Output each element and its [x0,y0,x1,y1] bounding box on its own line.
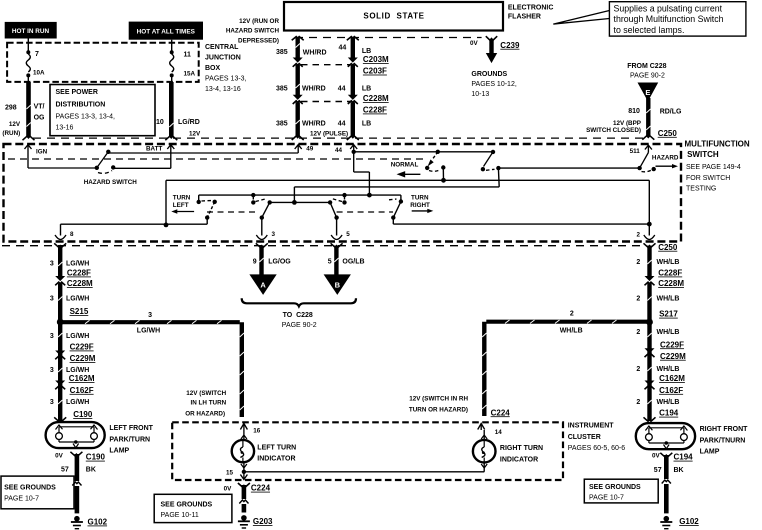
wire 9 LG/OG to triangle A [253,243,292,275]
svg-text:C203M: C203M [363,55,389,64]
splice S217 [646,319,653,421]
central junction box (dashed) [7,43,199,82]
svg-text:C190: C190 [86,453,106,462]
svg-text:C228F: C228F [363,106,387,115]
svg-text:BK: BK [674,467,684,474]
svg-text:0V: 0V [55,453,64,460]
svg-text:13-4, 13-16: 13-4, 13-16 [205,86,241,93]
svg-text:LEFT: LEFT [173,202,189,209]
svg-text:2: 2 [636,329,640,336]
left turn indicator bulb [232,440,296,463]
svg-text:44: 44 [339,45,347,52]
connector labels C203M C203F C228M C228F [363,55,389,115]
instrument cluster box (dashed) [172,422,563,480]
svg-text:FLASHER: FLASHER [508,14,541,21]
svg-text:TURN OR HAZARD): TURN OR HAZARD) [409,407,468,414]
wire foot into left lamp [54,417,66,421]
connector C203 joint left [293,64,303,100]
svg-text:LAMP: LAMP [109,448,129,455]
svg-text:to selected lamps.: to selected lamps. [614,25,685,35]
svg-text:13-16: 13-16 [56,125,74,132]
svg-text:0V: 0V [470,40,479,47]
wire 3 LG/WH left column top [50,243,89,281]
svg-text:C228M: C228M [363,94,389,103]
svg-text:C190: C190 [73,410,93,419]
svg-text:E: E [645,88,650,97]
pin 3 [256,218,275,240]
left column wire under S215 [50,333,94,352]
svg-text:C228F: C228F [67,269,91,278]
svg-text:HAZARD SWITCH: HAZARD SWITCH [84,179,138,186]
multifunction switch box (heavy dashed) [4,144,682,242]
svg-text:BATT: BATT [146,146,162,153]
normal pole right [481,150,501,187]
connector C228F/C228M joint right column [636,269,684,323]
svg-text:10: 10 [156,119,164,126]
lamp ground wire 57 BK left [55,452,105,514]
svg-text:S215: S215 [70,307,89,316]
pin 8 bus line D [55,224,207,239]
svg-text:SEE GROUNDS: SEE GROUNDS [589,484,641,491]
svg-text:RIGHT: RIGHT [410,202,430,209]
svg-text:7: 7 [35,51,39,58]
svg-text:PAGE 90-2: PAGE 90-2 [282,322,317,329]
svg-text:Supplies a pulsating current: Supplies a pulsating current [614,4,723,14]
svg-text:A: A [260,281,266,290]
switch bus H2 [354,151,493,153]
svg-text:3: 3 [50,261,54,268]
svg-text:5: 5 [346,231,350,238]
svg-text:PARK/TNURN: PARK/TNURN [700,437,746,444]
svg-text:LEFT FRONT: LEFT FRONT [109,425,153,432]
labels 385 WH/RD 44 LB rows [226,18,371,137]
switch bus line F [270,201,330,203]
svg-text:IN LH TURN: IN LH TURN [191,399,227,406]
svg-text:WH/LB: WH/LB [560,327,583,334]
switch bus line E [199,193,401,202]
pin BATT [113,145,174,169]
svg-text:C203F: C203F [363,67,387,76]
right turn indicator bulb [473,440,543,472]
left turn indicator pin 15 and cross wire [226,462,484,480]
switch bus line A [164,180,650,227]
svg-text:C229M: C229M [660,352,686,361]
dashed connector line above switch box [33,137,643,139]
svg-text:385: 385 [276,121,288,128]
svg-text:2: 2 [636,259,640,266]
svg-text:C224: C224 [491,408,511,417]
svg-text:WH/LB: WH/LB [657,329,680,336]
label 10 LG/RD 12V [156,119,201,138]
right turn indicator pin 14 [478,424,503,441]
svg-text:C194: C194 [659,409,679,418]
right column wire under S217 [636,329,684,349]
svg-text:C162M: C162M [659,374,685,383]
power tag HOT IN RUN [5,22,57,39]
svg-text:WH/RD: WH/RD [302,121,326,128]
svg-text:BOX: BOX [205,65,221,72]
svg-text:0V: 0V [224,485,233,492]
right front park/turn lamp [636,423,695,449]
wire from normal-right contact to hazard pole 2 [498,167,639,169]
svg-text:C162M: C162M [69,374,95,383]
svg-text:14: 14 [495,429,503,436]
svg-text:TO C228: TO C228 [283,312,313,319]
svg-text:C250: C250 [658,243,678,252]
label ELECTRONIC FLASHER [508,4,554,20]
turn switch pole SL3 [328,193,347,220]
svg-text:3: 3 [148,312,152,319]
label MULTIFUNCTION SWITCH [685,140,750,193]
svg-text:12V (PULSE): 12V (PULSE) [310,130,348,137]
callout note box with pointer [553,2,746,36]
svg-text:3: 3 [50,333,54,340]
svg-text:C239: C239 [500,41,520,50]
svg-text:through Multifunction Switch: through Multifunction Switch [614,14,724,24]
svg-text:385: 385 [276,86,288,93]
lamp ground wire 57 BK right [652,452,693,513]
svg-text:S217: S217 [659,310,678,319]
svg-text:C229F: C229F [660,340,684,349]
svg-text:PAGES 13-3,: PAGES 13-3, [205,75,247,82]
dashed page boundary under switch box [2,245,643,247]
svg-text:BK: BK [86,467,96,474]
svg-text:WH/LB: WH/LB [657,296,680,303]
svg-text:SOLID STATE: SOLID STATE [363,12,424,21]
svg-text:10A: 10A [33,70,45,77]
hazard switch pole 1 [84,150,138,187]
electronic flasher SOLID STATE box [284,2,503,31]
svg-text:PARK/TURN: PARK/TURN [109,436,150,443]
svg-text:57: 57 [61,467,69,474]
svg-text:ELECTRONIC: ELECTRONIC [508,4,554,11]
svg-text:11: 11 [184,51,192,58]
svg-text:LG/WH: LG/WH [66,367,89,374]
svg-text:C162F: C162F [659,386,683,395]
svg-text:57: 57 [654,467,662,474]
svg-text:PAGE 10-7: PAGE 10-7 [589,495,624,502]
wire 810 RD/LG [586,98,682,140]
svg-text:FROM C228: FROM C228 [627,63,666,70]
svg-text:WH/RD: WH/RD [302,86,326,93]
svg-text:C228M: C228M [67,279,93,288]
svg-text:B: B [335,281,341,290]
ground G203 [238,515,273,528]
svg-text:5: 5 [328,258,332,265]
dashed linkage line from hazard [8,158,428,160]
svg-text:JUNCTION: JUNCTION [205,54,241,61]
svg-text:810: 810 [628,108,640,115]
svg-text:RD/LG: RD/LG [660,108,682,115]
svg-text:44: 44 [338,121,346,128]
svg-text:VT/: VT/ [34,104,45,111]
svg-text:PAGES 13-3, 13-4,: PAGES 13-3, 13-4, [56,113,115,120]
svg-text:NORMAL: NORMAL [391,162,419,169]
svg-text:511: 511 [630,148,641,155]
svg-text:HOT AT ALL TIMES: HOT AT ALL TIMES [137,28,196,35]
ground G102 left [71,516,108,529]
turn switch pole SL1 [197,200,217,225]
svg-text:3: 3 [50,399,54,406]
svg-text:C194: C194 [674,453,694,462]
svg-text:HOT IN RUN: HOT IN RUN [12,28,50,35]
svg-text:44: 44 [335,147,343,154]
svg-text:SEE POWER: SEE POWER [56,89,98,96]
svg-text:SWITCH: SWITCH [687,150,719,159]
label TURN LEFT with arrow [171,195,194,214]
connector C203 joint right [348,64,358,100]
wire 385 WH/RD flasher left leg [292,37,304,63]
svg-text:IGN: IGN [36,149,48,156]
svg-text:C250: C250 [658,129,678,138]
wire 10 LG/RD (hot at all times feed) [165,82,177,140]
svg-text:9: 9 [253,258,257,265]
svg-text:12V: 12V [9,121,21,128]
pin IGN [25,145,97,168]
label INSTRUMENT CLUSTER [568,423,626,452]
wire 5 OG/LB to triangle B [328,243,365,275]
turn switch pole SR1 [389,199,403,224]
svg-text:G102: G102 [88,518,108,527]
note box SEE GROUNDS PAGE 10-7 right [584,479,658,503]
svg-text:LEFT TURN: LEFT TURN [257,445,296,452]
svg-text:44: 44 [338,86,346,93]
label FROM C228 PAGE 90-2 [627,63,666,80]
label LEFT FRONT PARK/TURN LAMP [109,425,153,454]
label GROUNDS pages [471,71,516,98]
note box SEE POWER DISTRIBUTION [50,85,155,136]
svg-text:C228F: C228F [658,269,682,278]
ground G102 right [660,516,699,529]
svg-text:SWITCH CLOSED): SWITCH CLOSED) [586,127,641,134]
connector C228F/C228M joint left column [50,269,93,323]
svg-text:INDICATOR: INDICATOR [257,456,295,463]
svg-text:INSTRUMENT: INSTRUMENT [568,423,615,430]
turn switch pole SL2 [251,193,272,220]
svg-text:WH/LB: WH/LB [657,259,680,266]
svg-text:PAGES 10-12,: PAGES 10-12, [471,81,516,88]
triangle E (from C228) [638,83,659,102]
svg-text:8: 8 [70,231,74,238]
triangle A [249,274,276,295]
svg-text:LG/WH: LG/WH [66,333,89,340]
fuse 11 15A [170,40,196,82]
svg-text:INDICATOR: INDICATOR [500,456,538,463]
svg-text:2: 2 [636,366,640,373]
splice S215 [57,319,64,421]
svg-text:2: 2 [570,311,574,318]
svg-text:2: 2 [636,296,640,303]
svg-text:12V (BPP: 12V (BPP [613,120,641,127]
svg-text:C228M: C228M [658,279,684,288]
svg-text:LG/WH: LG/WH [66,399,89,406]
svg-text:PAGE 10-11: PAGE 10-11 [161,512,199,519]
svg-text:LG/WH: LG/WH [66,296,89,303]
svg-text:3: 3 [50,367,54,374]
svg-text:12V (SWITCH IN RH: 12V (SWITCH IN RH [409,395,468,402]
pin 44 [335,145,369,195]
svg-text:HAZARD: HAZARD [652,154,679,161]
label RIGHT FRONT PARK/TNURN LAMP [700,426,749,455]
svg-text:3: 3 [272,231,276,238]
svg-text:WH/LB: WH/LB [657,399,680,406]
svg-text:LB: LB [362,121,371,128]
svg-text:OG: OG [34,115,45,122]
svg-text:TURN: TURN [411,195,429,202]
svg-text:SEE PAGE 149-4: SEE PAGE 149-4 [686,164,741,171]
connector C229 joint right column [636,348,686,383]
connector C229 joint left column [50,351,96,384]
svg-text:FOR SWITCH: FOR SWITCH [686,175,730,182]
svg-text:12V (SWITCH: 12V (SWITCH [186,390,226,397]
branch wire 3 LG/WH to left turn indicator [60,312,244,417]
svg-text:C229M: C229M [70,354,96,363]
svg-text:LG/WH: LG/WH [137,327,160,334]
connector C162 joint right column [636,381,683,418]
svg-text:RIGHT TURN: RIGHT TURN [500,445,543,452]
note box SEE GROUNDS PAGE 10-7 left [1,476,74,509]
note box SEE GROUNDS PAGE 10-11 [154,494,232,522]
label CENTRAL JUNCTION BOX [205,44,247,93]
mechanical linkage dashes lower row [207,211,258,213]
svg-text:OR HAZARD): OR HAZARD) [185,410,225,417]
svg-text:298: 298 [5,105,17,112]
svg-text:12V: 12V [189,131,201,138]
svg-text:TURN: TURN [173,195,191,202]
svg-text:CENTRAL: CENTRAL [205,44,239,51]
svg-text:SEE GROUNDS: SEE GROUNDS [161,501,213,508]
svg-text:PAGE 90-2: PAGE 90-2 [630,73,665,80]
cluster ground wire to G203 [224,483,271,513]
svg-text:OG/LB: OG/LB [342,258,364,265]
hazard switch pole 2 [637,153,679,172]
label 298 VT/OG 12V(RUN) [2,104,45,137]
dashed connector boundaries C203 C228 [301,64,350,66]
svg-text:LG/WH: LG/WH [66,261,89,268]
label TURN RIGHT with arrow [410,195,433,213]
dashed line under flasher [295,37,482,39]
svg-text:10-13: 10-13 [471,91,489,98]
pin 49 [108,145,313,153]
branch wire 2 WH/LB to right turn indicator [409,311,650,418]
power tag HOT AT ALL TIMES [129,22,203,40]
svg-text:12V (RUN OR: 12V (RUN OR [239,18,279,25]
svg-text:G102: G102 [679,517,699,526]
svg-text:RIGHT FRONT: RIGHT FRONT [700,426,749,433]
svg-text:PAGES 60-5, 60-6: PAGES 60-5, 60-6 [568,445,626,452]
pin 2 bus [393,180,655,239]
svg-text:MULTIFUNCTION: MULTIFUNCTION [685,140,750,149]
connector C162 joint left column [50,381,94,420]
svg-text:LG/RD: LG/RD [178,119,200,126]
svg-text:0V: 0V [652,452,661,459]
svg-text:G203: G203 [253,517,273,526]
svg-text:SEE GROUNDS: SEE GROUNDS [4,485,56,492]
svg-text:LB: LB [362,86,371,93]
svg-text:2: 2 [637,232,641,239]
svg-text:(RUN): (RUN) [2,130,20,137]
wire foot into right lamp [644,417,656,421]
svg-text:15: 15 [226,469,234,476]
svg-text:DISTRIBUTION: DISTRIBUTION [56,101,106,108]
svg-text:49: 49 [306,146,314,153]
normal pole left [391,150,446,183]
svg-text:385: 385 [276,49,288,56]
svg-text:PAGE 10-7: PAGE 10-7 [4,496,39,503]
svg-text:HAZARD SWITCH: HAZARD SWITCH [226,28,280,35]
ground wire 0V to C239 [470,36,520,63]
svg-text:2: 2 [636,399,640,406]
svg-text:LG/OG: LG/OG [268,258,291,265]
triangle B [324,274,351,295]
svg-text:C229F: C229F [70,343,94,352]
svg-text:CLUSTER: CLUSTER [568,434,601,441]
brace TO C228 [242,298,356,329]
svg-text:DEPRESSED): DEPRESSED) [238,37,279,44]
left turn indicator pin 16 [240,424,260,441]
pin 511 [630,145,652,155]
svg-text:LAMP: LAMP [700,449,720,456]
svg-text:WH/RD: WH/RD [303,50,327,57]
wire 2 WH/LB right column top [636,243,679,281]
svg-text:3: 3 [50,296,54,303]
wire 44 LB flasher right leg [347,37,359,63]
switch bus line C [292,187,499,205]
svg-text:C224: C224 [251,484,271,493]
svg-text:TESTING: TESTING [686,186,716,193]
fuse 7 10A [26,39,45,83]
pin 5 [331,218,350,240]
connector C228 joint right [347,101,359,140]
svg-text:WH/LB: WH/LB [657,366,680,373]
svg-text:GROUNDS: GROUNDS [471,71,507,78]
svg-text:16: 16 [253,428,261,435]
wire 298 VT/OG (hot in run feed) [23,82,35,140]
svg-text:LB: LB [362,48,371,55]
svg-text:15A: 15A [184,71,196,78]
left front park/turn lamp [46,422,105,448]
connector C228 joint left [292,101,304,140]
svg-text:C162F: C162F [70,386,94,395]
